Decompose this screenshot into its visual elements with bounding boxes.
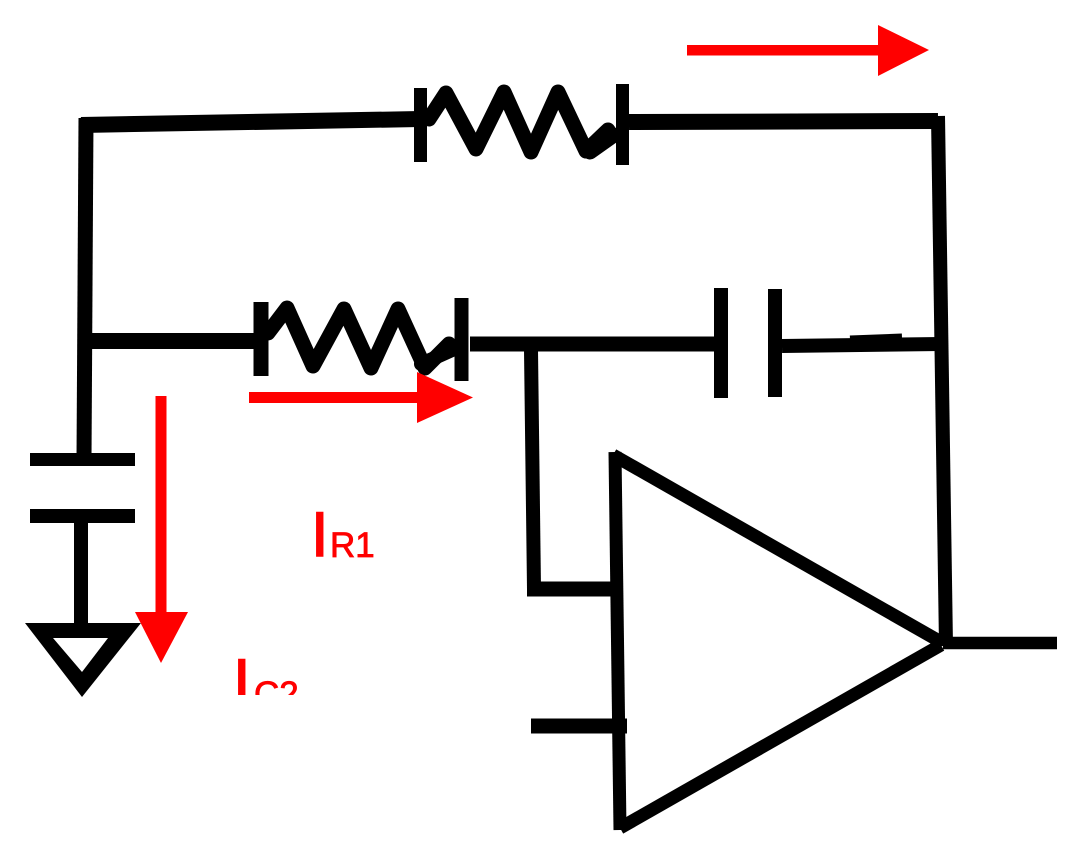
resistor R1 end stroke overlap xyxy=(421,346,461,364)
wire op-amp inverting input stub xyxy=(531,719,627,734)
ground symbol xyxy=(25,623,141,697)
wire top horizontal from left corner to R2 xyxy=(81,119,420,125)
wire to op-amp noninverting input xyxy=(527,582,617,597)
svg-text:I: I xyxy=(233,647,251,717)
wire junction down to op-amp input xyxy=(531,350,534,589)
wire from C2 to right rail xyxy=(782,344,941,346)
red current arrow IC2 shaft xyxy=(156,396,167,613)
wire from R1 to C2 xyxy=(470,337,716,352)
capacitor C2 right plate xyxy=(768,289,782,397)
op-amp U1 top edge xyxy=(613,455,941,642)
resistor R2 end stroke overlap xyxy=(590,135,614,152)
capacitor C1 top plate xyxy=(30,453,135,466)
op-amp U1 bottom edge xyxy=(620,645,941,828)
wire left vertical xyxy=(84,118,86,459)
resistor R2 zigzag body xyxy=(429,92,608,152)
wire right vertical rail xyxy=(938,116,946,646)
wire branch to R1 xyxy=(86,333,262,349)
wire overlap stroke on C2 output xyxy=(850,338,902,340)
capacitor C1 bottom plate xyxy=(30,509,135,523)
svg-text:R1: R1 xyxy=(330,526,375,565)
svg-text:I: I xyxy=(311,500,329,570)
label IC2 clipped xyxy=(233,647,299,717)
wire op-amp output xyxy=(943,637,1057,650)
resistor R1 left terminal bar xyxy=(254,302,269,376)
red current arrow IC2 head xyxy=(135,612,188,663)
resistor R1 right terminal bar xyxy=(455,298,469,381)
red current arrow top head xyxy=(878,25,929,76)
resistor R2 left terminal bar xyxy=(414,88,427,162)
svg-text:C2: C2 xyxy=(254,675,299,714)
red current arrow IR1 shaft xyxy=(249,392,418,403)
red current arrow IR1 head xyxy=(417,372,473,423)
wire top right from R2 to right rail xyxy=(629,121,938,122)
red current arrow top shaft xyxy=(687,45,878,56)
resistor R1 zigzag body xyxy=(268,308,449,368)
op-amp U1 left edge xyxy=(615,452,620,830)
wire C1 to ground xyxy=(74,523,88,628)
capacitor C2 left plate xyxy=(714,288,728,398)
resistor R2 right terminal bar xyxy=(616,84,629,165)
